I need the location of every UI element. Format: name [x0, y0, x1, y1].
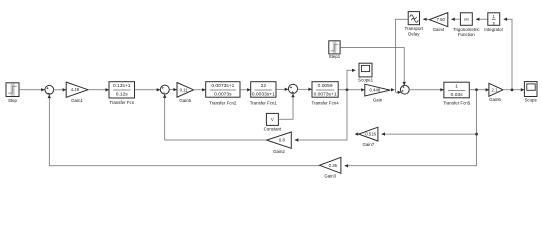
- wire Step to Sum1: [19, 89, 45, 91]
- wire Sum4 to Transfer Fcn5: [409, 89, 444, 91]
- arrow Constant into Sum3: [291, 94, 294, 98]
- gain Gain3 (left pointing): [320, 157, 341, 173]
- transfer function Transfer Fcn1: [251, 82, 276, 98]
- wire branch to Scope1: [347, 70, 356, 90]
- arrow into Gain4: [451, 18, 455, 21]
- wire Trigonometric Function to Gain4: [451, 18, 460, 20]
- arrow into Sum1: [41, 88, 45, 91]
- svg-text:Transfer Fcn: Transfer Fcn: [109, 100, 134, 105]
- svg-text:Gain1: Gain1: [71, 98, 83, 103]
- svg-text:Step: Step: [8, 98, 18, 103]
- node junction on main line at x347: [346, 88, 349, 91]
- wire Gain4 to Transport Delay: [423, 18, 429, 20]
- transfer function Transfer Fcn: [109, 82, 135, 98]
- svg-text:Step1: Step1: [329, 54, 341, 59]
- node junction on feedback at y134: [475, 133, 478, 136]
- svg-text:0.516: 0.516: [365, 132, 376, 137]
- arrow Transport Delay into Sum4: [398, 91, 402, 94]
- arrow into Transfer Fcn5: [440, 88, 444, 91]
- arrow into Gain6: [486, 88, 490, 91]
- svg-text:Delay: Delay: [408, 32, 420, 37]
- arrow into Transfer Fcn: [105, 88, 109, 91]
- svg-text:Gain4: Gain4: [433, 27, 445, 32]
- svg-text:Gain: Gain: [373, 97, 383, 102]
- svg-text:Scope: Scope: [524, 98, 537, 103]
- wire Sum3 to Transfer Fcn4: [298, 88, 312, 90]
- transfer function Transfer Fcn5: [444, 82, 469, 98]
- svg-text:2.1: 2.1: [492, 87, 499, 92]
- wire Transfer Fcn to Sum2: [135, 89, 161, 91]
- transport delay block: [408, 12, 419, 25]
- svg-text:22: 22: [261, 83, 267, 89]
- wire Gain1 to Transfer Fcn: [88, 89, 109, 91]
- arrow into Transfer Fcn2: [202, 88, 206, 91]
- wire Gain5 to Transfer Fcn2: [194, 89, 206, 91]
- sum junction Sum3: [288, 84, 297, 93]
- gain Gain6: [489, 83, 503, 96]
- wire main node down to Gain2 line: [295, 90, 347, 140]
- svg-text:0.8: 0.8: [279, 138, 286, 143]
- arrow into Integrator input: [504, 18, 508, 21]
- svg-text:Gain5: Gain5: [179, 98, 191, 103]
- arrow into Gain3: [345, 164, 349, 167]
- svg-text:Gain2: Gain2: [273, 149, 285, 154]
- svg-text:Transfer Fcn1: Transfer Fcn1: [250, 100, 278, 105]
- arrow Step1 into Sum4 top: [403, 82, 406, 86]
- arrow into Scope1: [352, 69, 356, 72]
- svg-text:0.0033s+1: 0.0033s+1: [252, 91, 275, 97]
- gain Gain2 (left pointing): [267, 132, 292, 148]
- wire Sum2 to Gain5: [169, 89, 177, 91]
- svg-text:0.12s: 0.12s: [116, 91, 129, 97]
- wire Integrator to Trigonometric Function: [476, 18, 488, 20]
- svg-text:0.0073s+1: 0.0073s+1: [314, 91, 337, 97]
- svg-text:4.48: 4.48: [71, 87, 80, 92]
- arrow into Transport Delay: [423, 18, 427, 21]
- svg-text:Constant: Constant: [264, 127, 282, 132]
- source block Step1: [329, 41, 340, 54]
- svg-text:Integrator: Integrator: [484, 27, 503, 32]
- sum junction Sum1: [45, 85, 54, 94]
- svg-text:sin: sin: [464, 17, 469, 22]
- gain Gain1: [66, 82, 88, 97]
- svg-text:0.03s: 0.03s: [451, 92, 464, 98]
- wire Sum1 to Gain1: [54, 89, 66, 91]
- svg-text:Transfer Fcn4: Transfer Fcn4: [312, 100, 340, 105]
- wire Transfer Fcn4 to Gain: [338, 89, 365, 91]
- svg-text:V: V: [271, 117, 274, 122]
- svg-text:7.50: 7.50: [437, 17, 446, 22]
- arrow into Gain2: [295, 138, 299, 141]
- gain Gain5: [177, 83, 194, 98]
- svg-text:0.448: 0.448: [369, 88, 380, 93]
- wire Transfer Fcn1 to Sum3: [276, 88, 288, 90]
- gain Gain: [365, 84, 390, 96]
- svg-text:Transfer Fcn5: Transfer Fcn5: [443, 100, 471, 105]
- svg-text:Transfer Fcn2: Transfer Fcn2: [209, 100, 237, 105]
- svg-text:Gain7: Gain7: [362, 142, 374, 147]
- svg-text:0.0073s+1: 0.0073s+1: [211, 83, 234, 89]
- arrow into Trigonometric Function: [476, 18, 480, 21]
- svg-text:0.11: 0.11: [180, 87, 189, 92]
- arrow into Sum3: [285, 88, 289, 91]
- wire Step1 to Sum4 top: [340, 48, 404, 86]
- wire Gain7 output stub: [355, 133, 358, 135]
- svg-text:Function: Function: [458, 32, 475, 37]
- wire Gain2 to Sum2 bottom: [165, 94, 267, 140]
- sink block Scope: [524, 82, 537, 97]
- arrow into Transfer Fcn1: [247, 88, 251, 91]
- arrow into Gain7: [381, 132, 385, 135]
- svg-text:1: 1: [455, 84, 458, 90]
- arrow Gain output: [391, 88, 395, 91]
- arrow into Transfer Fcn4: [308, 88, 312, 91]
- svg-text:Transport: Transport: [404, 26, 423, 31]
- trigonometric function block: [460, 13, 472, 25]
- svg-text:0.35: 0.35: [329, 163, 338, 168]
- arrow into Gain5: [173, 88, 177, 91]
- wire feedback from output node down: [345, 90, 477, 166]
- transfer function Transfer Fcn2: [206, 82, 240, 98]
- constant block V: [266, 113, 278, 125]
- wire Transfer Fcn2 to Transfer Fcn1: [240, 89, 251, 91]
- arrow into Scope: [521, 88, 525, 91]
- sum junction Sum2: [160, 85, 169, 94]
- sum junction Sum4: [400, 85, 409, 94]
- transfer function Transfer Fcn4: [312, 82, 338, 98]
- node junction after Transfer Fcn5: [475, 88, 478, 91]
- wire Gain output stub: [390, 89, 395, 91]
- svg-text:Scope1: Scope1: [358, 78, 373, 83]
- arrow into Gain: [361, 88, 365, 91]
- svg-text:0.0073s: 0.0073s: [214, 91, 232, 97]
- arrow Gain7 output: [355, 132, 359, 135]
- integrator block Integrator: [488, 13, 500, 25]
- svg-text:Gain6: Gain6: [489, 97, 501, 102]
- wire Gain6 to Scope: [503, 89, 524, 91]
- wire Gain6 node up to Integrator: [504, 19, 513, 90]
- sink block Scope1: [359, 63, 372, 77]
- gain Gain7 (left pointing): [359, 127, 378, 141]
- svg-text:s: s: [493, 20, 495, 25]
- svg-text:0.0059: 0.0059: [318, 83, 333, 89]
- arrow Gain3 into Sum1: [48, 95, 51, 99]
- wire Transport Delay down to Sum4: [396, 19, 409, 92]
- node junction after Gain6: [511, 88, 514, 91]
- arrow into Gain1: [63, 88, 67, 91]
- svg-text:0.13s+1: 0.13s+1: [113, 83, 131, 89]
- arrow into Sum2: [157, 88, 161, 91]
- wire feedback to Gain7: [381, 133, 476, 135]
- source block Step: [6, 83, 19, 97]
- svg-text:Gain3: Gain3: [324, 173, 336, 178]
- gain Gain4 (left pointing): [429, 13, 448, 27]
- wire Gain3 to Sum1 bottom: [49, 95, 319, 166]
- wire Transfer Fcn5 to Gain6: [469, 89, 489, 91]
- arrow Gain2 into Sum2: [163, 94, 166, 98]
- wire Constant to Sum3: [278, 94, 293, 120]
